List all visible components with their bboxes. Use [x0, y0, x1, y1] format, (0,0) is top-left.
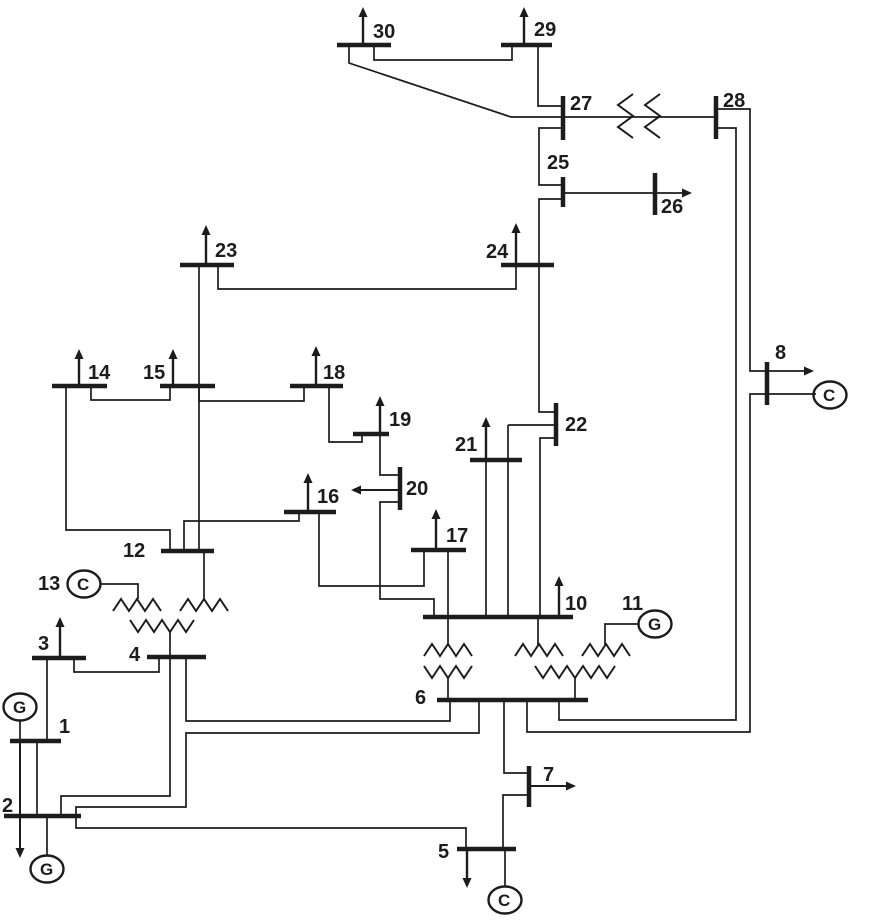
- transformer 27-28 winding b: [645, 94, 660, 138]
- svg-text:11: 11: [622, 593, 643, 615]
- condenser C13: [68, 571, 101, 598]
- svg-text:16: 16: [317, 486, 339, 508]
- transformer 6-10 bottom winding: [424, 666, 472, 678]
- wire 25-26 with load arrow bus 26: [563, 189, 692, 198]
- bus 16 bar: [284, 510, 336, 515]
- load arrow bus 14: [75, 349, 84, 384]
- svg-text:24: 24: [486, 241, 509, 263]
- load arrow bus 10: [555, 576, 564, 615]
- bus 19 bar: [353, 432, 389, 437]
- svg-text:17: 17: [446, 525, 468, 547]
- wire 22-24: [539, 265, 554, 412]
- svg-text:23: 23: [215, 240, 237, 262]
- svg-text:15: 15: [143, 362, 165, 384]
- load arrow bus 3: [56, 617, 65, 656]
- bus 29 bar: [501, 43, 552, 48]
- svg-text:C: C: [77, 575, 89, 594]
- bus 21 bar: [470, 458, 522, 463]
- condenser C8: [814, 382, 847, 409]
- wire bus 5 to C5: [504, 851, 506, 887]
- svg-text:8: 8: [775, 342, 786, 364]
- bus 3 bar: [32, 656, 86, 661]
- bus 30 bar: [337, 43, 391, 48]
- bus 26 bar: [653, 173, 658, 215]
- condenser C5: [489, 887, 522, 914]
- bus 14 bar: [52, 384, 107, 389]
- load arrow bus 17: [432, 509, 441, 548]
- svg-text:29: 29: [534, 19, 556, 41]
- svg-text:25: 25: [547, 152, 569, 174]
- svg-text:22: 22: [565, 414, 587, 436]
- svg-text:6: 6: [415, 687, 426, 709]
- wire 12-14: [66, 388, 170, 549]
- bus 17 bar: [411, 548, 466, 553]
- svg-text:10: 10: [565, 593, 587, 615]
- load arrow bus 24: [512, 223, 521, 263]
- wire 19-20: [380, 436, 398, 475]
- wire 5-7: [503, 795, 527, 847]
- wire 27-30: [349, 47, 561, 117]
- bus 23 bar: [180, 263, 234, 268]
- transformer 27-28 winding a: [618, 94, 633, 138]
- svg-text:G: G: [648, 615, 661, 634]
- bus 25 bar: [561, 177, 566, 207]
- load arrow bus 29: [520, 7, 529, 43]
- bus 20 bar: [398, 467, 403, 510]
- transformer 6-9 winding: [535, 666, 615, 678]
- load arrow bus 21: [482, 417, 491, 458]
- svg-text:30: 30: [373, 21, 395, 43]
- bus 8 bar: [765, 362, 770, 405]
- svg-text:2: 2: [2, 795, 13, 817]
- wire 16-17: [319, 514, 424, 586]
- svg-text:14: 14: [88, 362, 111, 384]
- bus 4 bar: [147, 655, 206, 660]
- wire 29-30: [374, 47, 512, 60]
- wire transformer to bus 4 and 2-4: [61, 632, 170, 814]
- svg-text:4: 4: [129, 644, 141, 666]
- bus 5 bar: [457, 847, 516, 852]
- bus 18 bar: [290, 384, 343, 389]
- wire 10-22 right: [540, 438, 554, 615]
- wire 10-21: [485, 462, 487, 615]
- transformer 9-11 winding: [582, 644, 630, 656]
- load arrow bus 20: [351, 486, 398, 495]
- bus 27 bar: [561, 96, 566, 140]
- load arrow bus 2: [16, 743, 25, 858]
- wire 13 to transformer: [100, 584, 138, 599]
- load arrow bus 30: [359, 7, 368, 43]
- wire 12 to transformer: [203, 553, 205, 599]
- wire 3-4: [74, 659, 159, 672]
- svg-text:13: 13: [38, 573, 60, 595]
- bus 6 bar: [437, 698, 588, 703]
- svg-text:27: 27: [570, 93, 592, 115]
- transformer 6-10 top winding: [424, 644, 472, 656]
- load arrow bus 23: [202, 225, 211, 263]
- wire G1 to bus 1: [19, 720, 21, 739]
- wire 10-20: [380, 502, 434, 615]
- wire 6-7: [504, 702, 527, 773]
- generator G11: [639, 611, 672, 638]
- svg-text:26: 26: [661, 196, 683, 218]
- load arrow bus 7: [531, 782, 576, 791]
- svg-text:21: 21: [455, 434, 477, 456]
- bus 2 bar: [4, 814, 81, 819]
- wire 10-22 left: [507, 425, 509, 615]
- wire bus 2 to G2: [46, 818, 48, 856]
- svg-text:1: 1: [59, 716, 70, 738]
- svg-text:C: C: [823, 386, 835, 405]
- bus 22 bar: [554, 403, 559, 446]
- wire 18-19: [329, 388, 362, 442]
- wire 6-8: [527, 394, 765, 732]
- bus 10 bar: [423, 615, 573, 620]
- wire 4-6: [186, 659, 450, 721]
- transformer 4 side winding: [130, 620, 194, 632]
- load arrow bus 18: [312, 346, 321, 384]
- wire 25-27: [539, 128, 561, 185]
- wire transformer to bus 6 left: [447, 678, 449, 698]
- transformer 12-13 winding: [113, 599, 161, 611]
- wire 15-23: [198, 267, 200, 384]
- wire 2-6: [76, 702, 479, 814]
- wire 10-17: [447, 552, 449, 615]
- load arrow bus 19: [376, 396, 385, 432]
- svg-text:5: 5: [438, 841, 449, 863]
- wire 14-15: [91, 388, 170, 400]
- load arrow bus 16: [304, 473, 313, 510]
- svg-text:18: 18: [323, 362, 345, 384]
- wire 12-16: [184, 514, 299, 549]
- wire 24-25: [539, 199, 561, 265]
- wire 23-24: [218, 267, 516, 289]
- wire 6-28: [559, 128, 736, 720]
- load arrow bus 5: [463, 851, 472, 888]
- load arrow bus 15: [169, 349, 178, 384]
- wire 8-C: [769, 393, 816, 395]
- wire 27-29: [538, 47, 561, 106]
- wire 15-18: [199, 388, 304, 401]
- svg-text:12: 12: [123, 540, 145, 562]
- transformer 12-4 winding: [180, 599, 228, 611]
- bus 1 bar: [10, 739, 61, 744]
- wire 10 to transformer left: [447, 619, 449, 645]
- wire G11 to transformer: [605, 624, 639, 645]
- wire 10 to transformer right: [537, 619, 539, 645]
- generator G1: [4, 694, 37, 721]
- wire 1-3: [46, 660, 48, 739]
- bus 28 bar: [714, 96, 719, 139]
- wire 2-5: [76, 818, 466, 847]
- bus 12 bar: [161, 549, 214, 554]
- wire 1-2: [36, 743, 38, 814]
- bus 7 bar: [527, 766, 532, 807]
- wire 12-15: [198, 388, 200, 549]
- svg-text:G: G: [40, 860, 53, 879]
- svg-text:G: G: [13, 698, 26, 717]
- svg-text:20: 20: [406, 478, 428, 500]
- svg-text:7: 7: [543, 764, 554, 786]
- wire 21-22: [508, 424, 554, 426]
- bus 24 bar: [501, 263, 554, 268]
- svg-text:C: C: [498, 891, 510, 910]
- wire 8-28 with load arrow bus 8: [718, 109, 814, 376]
- bus 15 bar: [160, 384, 215, 389]
- transformer 9-10 winding: [515, 644, 563, 656]
- wire transformer to bus 6 right: [574, 678, 576, 698]
- svg-text:3: 3: [38, 633, 49, 655]
- wire 27-28: [565, 116, 714, 118]
- svg-text:19: 19: [389, 409, 411, 431]
- generator G2: [31, 856, 64, 883]
